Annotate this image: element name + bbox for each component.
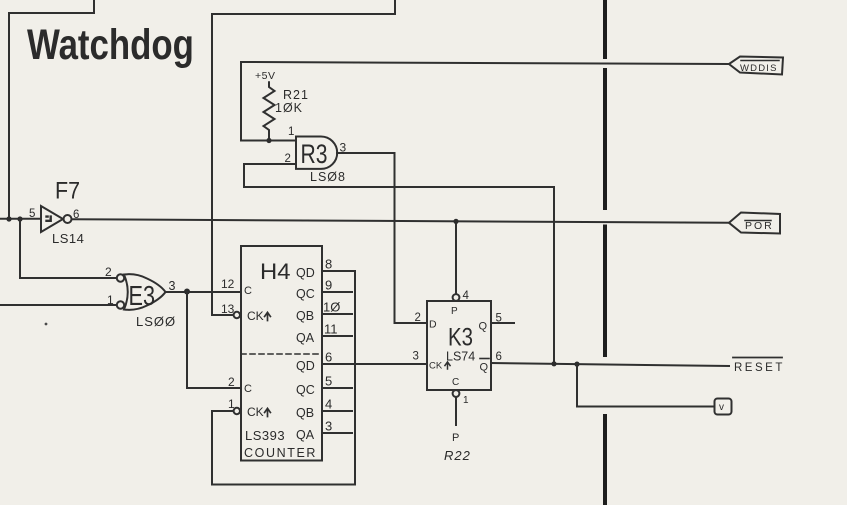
svg-text:CK: CK bbox=[429, 361, 443, 372]
counter H4 box bbox=[241, 246, 322, 461]
wire branch to V box bbox=[577, 364, 715, 407]
svg-text:RESET: RESET bbox=[734, 362, 785, 374]
nand-gate E3 input bubbles bbox=[117, 274, 124, 281]
svg-text:1: 1 bbox=[228, 397, 235, 411]
inverter F7 output bubble bbox=[64, 215, 72, 223]
wire H4 QB pin4 stub bbox=[322, 410, 352, 412]
svg-text:P: P bbox=[451, 306, 458, 317]
wire WDDIS net (top of R21 box to flag) bbox=[241, 62, 729, 141]
nand-gate E3 body (negative-OR shape) bbox=[124, 274, 166, 310]
svg-text:12: 12 bbox=[221, 277, 235, 291]
svg-text:QA: QA bbox=[296, 428, 315, 442]
wire H4 QB pin10 stub bbox=[322, 313, 352, 315]
svg-text:1: 1 bbox=[107, 293, 114, 307]
svg-text:13: 13 bbox=[221, 302, 235, 316]
clock arrow K3 bbox=[445, 362, 450, 369]
flag WDDIS outline bbox=[729, 57, 783, 75]
svg-text:QA: QA bbox=[296, 331, 315, 345]
svg-text:1Ø: 1Ø bbox=[323, 300, 340, 315]
svg-text:1: 1 bbox=[463, 395, 469, 406]
svg-text:QB: QB bbox=[296, 309, 314, 323]
svg-text:D: D bbox=[429, 319, 437, 331]
node E3 output junction bbox=[184, 289, 190, 295]
inverter F7 triangle bbox=[41, 206, 63, 232]
svg-text:6: 6 bbox=[496, 351, 502, 363]
clock arrow H4 pin13 bbox=[265, 312, 271, 320]
counter H4 pin13 clock bubble bbox=[234, 312, 240, 318]
svg-text:2: 2 bbox=[228, 375, 235, 389]
counter H4 pin1 clock bubble bbox=[234, 408, 240, 414]
svg-text:Q: Q bbox=[480, 362, 489, 374]
svg-text:3: 3 bbox=[340, 141, 347, 155]
svg-text:4: 4 bbox=[325, 397, 332, 412]
wire K3 Q pin5 stub bbox=[491, 322, 514, 324]
svg-text:2: 2 bbox=[415, 312, 421, 324]
label RESET overline bbox=[733, 357, 782, 359]
svg-text:Q: Q bbox=[479, 321, 488, 333]
svg-text:1ØK: 1ØK bbox=[275, 101, 303, 115]
flip-flop K3 box bbox=[427, 301, 491, 390]
svg-text:8: 8 bbox=[325, 257, 332, 272]
svg-text:5: 5 bbox=[29, 208, 35, 220]
svg-text:QD: QD bbox=[296, 266, 315, 280]
svg-text:QD: QD bbox=[296, 359, 315, 373]
svg-text:COUNTER: COUNTER bbox=[244, 446, 317, 460]
node E3 branch junction bbox=[17, 216, 22, 221]
symbol V box bbox=[715, 399, 732, 415]
svg-text:9: 9 bbox=[325, 278, 332, 293]
svg-text:LSØØ: LSØØ bbox=[136, 314, 176, 329]
svg-text:C: C bbox=[244, 383, 252, 395]
flag POR outline bbox=[729, 213, 780, 234]
inverter F7 hysteresis mark bbox=[47, 217, 51, 221]
node K3 preset junction on POR bbox=[453, 219, 458, 224]
wire E3 input 2 from POR node bbox=[20, 219, 117, 278]
svg-text:LS74: LS74 bbox=[446, 350, 475, 364]
svg-text:QC: QC bbox=[296, 383, 315, 397]
flag WDDIS overline bbox=[741, 60, 779, 62]
svg-text:2: 2 bbox=[285, 153, 291, 165]
svg-text:F7: F7 bbox=[55, 178, 80, 205]
svg-text:R3: R3 bbox=[301, 139, 328, 169]
svg-text:P: P bbox=[452, 432, 459, 444]
resistor R21 bbox=[264, 82, 275, 141]
svg-text:v: v bbox=[719, 402, 724, 413]
flag POR overline bbox=[745, 220, 771, 222]
svg-text:Watchdog: Watchdog bbox=[27, 22, 194, 69]
flip-flop K3 clear bubble bbox=[453, 390, 460, 397]
node POR left junction bbox=[6, 216, 11, 221]
svg-text:E3: E3 bbox=[129, 280, 156, 311]
svg-text:1: 1 bbox=[288, 126, 294, 138]
wire E3 output to H4 pin12 bbox=[166, 291, 242, 293]
svg-text:6: 6 bbox=[325, 350, 332, 365]
wire K3 Qbar pin6 RESET net bbox=[491, 363, 729, 366]
svg-text:6: 6 bbox=[73, 209, 79, 221]
svg-text:R21: R21 bbox=[283, 88, 309, 102]
svg-text:R22: R22 bbox=[444, 448, 471, 463]
wire H4 QC pin9 stub bbox=[322, 291, 352, 293]
wire H4 QC pin5 stub bbox=[322, 387, 352, 389]
wire E3 output branch to H4 pin2 bbox=[187, 292, 241, 389]
svg-text:11: 11 bbox=[324, 322, 338, 337]
svg-text:LS393: LS393 bbox=[245, 428, 285, 443]
svg-text:CK: CK bbox=[247, 405, 264, 419]
clock arrow H4 pin1 bbox=[265, 408, 271, 416]
wire H4 QD8 feedback loop to pin1 clock bbox=[212, 271, 355, 485]
svg-text:C: C bbox=[452, 377, 459, 388]
wire H4 QD pin8 stub bbox=[322, 270, 355, 272]
wire H4 QD pin6 to K3 CK bbox=[322, 363, 427, 365]
wire H4 pin13 clock from top hook bbox=[212, 0, 395, 315]
svg-text:5: 5 bbox=[496, 313, 502, 325]
and-gate R3 body bbox=[296, 137, 337, 169]
wire H4 QA pin11 stub bbox=[322, 335, 352, 337]
speck mark bbox=[45, 323, 48, 326]
svg-text:K3: K3 bbox=[448, 324, 473, 352]
wire H4 QA pin3 stub bbox=[322, 432, 352, 434]
wire K3 preset pin4 from POR line bbox=[455, 221, 457, 294]
svg-text:+5V: +5V bbox=[255, 70, 275, 82]
svg-text:WDDIS: WDDIS bbox=[740, 63, 778, 74]
wire top-left hook to POR node bbox=[9, 0, 94, 219]
svg-text:C: C bbox=[244, 285, 252, 297]
svg-text:LSØ8: LSØ8 bbox=[310, 170, 346, 184]
node RESET junction 1 bbox=[551, 361, 556, 366]
svg-text:QC: QC bbox=[296, 287, 315, 301]
svg-text:H4: H4 bbox=[260, 259, 291, 284]
svg-text:POR: POR bbox=[745, 220, 774, 232]
wire POR line left segment bbox=[0, 218, 41, 220]
svg-text:2: 2 bbox=[105, 265, 112, 279]
wire R3 pin2 feedback loop from RESET net bbox=[244, 164, 554, 364]
svg-text:5: 5 bbox=[325, 374, 332, 389]
wire R3 output to K3 D input bbox=[337, 153, 427, 323]
node R21 bottom junction bbox=[266, 138, 271, 143]
svg-text:LS14: LS14 bbox=[52, 231, 84, 246]
bus boundary thick dashed line bbox=[603, 0, 607, 505]
svg-text:4: 4 bbox=[463, 290, 470, 302]
svg-text:3: 3 bbox=[413, 351, 419, 363]
counter H4 internal dashed divider bbox=[241, 353, 322, 355]
label Qbar overline inside K3 bbox=[480, 358, 489, 360]
wire E3 input 1 from left edge bbox=[0, 304, 117, 306]
node RESET junction 2 bbox=[574, 362, 579, 367]
svg-text:QB: QB bbox=[296, 406, 314, 420]
flip-flop K3 preset bubble bbox=[453, 294, 460, 301]
wire K3 clear pin1 to R22 bbox=[455, 397, 457, 425]
svg-text:3: 3 bbox=[325, 419, 332, 434]
svg-text:CK: CK bbox=[247, 309, 264, 323]
wire POR line to flag bbox=[72, 219, 730, 223]
svg-text:3: 3 bbox=[169, 279, 176, 293]
